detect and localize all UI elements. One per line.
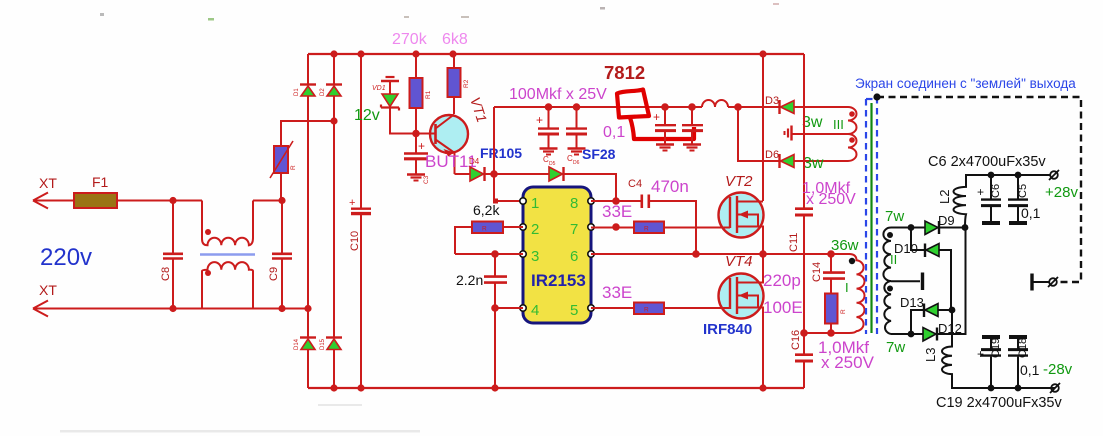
node base junction <box>412 130 420 138</box>
wire to D6 <box>738 107 779 161</box>
thermistor/varistor branch wire <box>281 121 334 201</box>
wire AC line bottom with arrow <box>33 301 308 317</box>
wire D1/D14 leg <box>307 54 309 388</box>
svg-text:100E: 100E <box>763 298 803 317</box>
svg-text:6,2k: 6,2k <box>473 202 500 218</box>
svg-text:VD1: VD1 <box>372 85 386 92</box>
svg-text:VT2: VT2 <box>725 173 753 190</box>
svg-text:C11: C11 <box>788 233 800 252</box>
pin circles <box>520 198 594 311</box>
capacitor C9 <box>272 201 292 309</box>
svg-text:C3: C3 <box>423 175 430 184</box>
wire AC line top with arrow <box>33 193 282 209</box>
transistor VT1 (BUT11) <box>416 115 468 175</box>
node pin3 junction <box>491 250 499 258</box>
diode D6 <box>765 149 848 168</box>
diode D1 <box>294 85 316 97</box>
thermistor R (crossed rectangle) <box>274 146 288 173</box>
svg-text:0,1: 0,1 <box>1020 362 1040 378</box>
diode D9 <box>925 213 965 235</box>
diode D15 <box>320 338 342 351</box>
diode FR105 <box>455 167 495 181</box>
svg-text:3w: 3w <box>803 155 824 172</box>
svg-text:5: 5 <box>570 302 578 319</box>
noise specks <box>60 3 779 433</box>
svg-text:D3: D3 <box>765 95 779 107</box>
terminal +28v <box>1049 170 1059 180</box>
svg-text:IR2153: IR2153 <box>531 271 586 290</box>
resistor R1 <box>410 54 433 134</box>
wire black dashed (screen to output common) <box>877 97 1081 282</box>
svg-text:2: 2 <box>531 221 539 238</box>
svg-text:+: + <box>418 139 425 153</box>
wire D2/D15 leg <box>333 54 335 388</box>
svg-text:C8: C8 <box>160 267 172 281</box>
MOSFET VT2 <box>719 54 764 254</box>
diode D10 <box>894 228 951 311</box>
svg-text:Экран соединен с "землей" выхо: Экран соединен с "землей" выхода <box>855 76 1076 91</box>
inductor L2 <box>954 175 992 228</box>
svg-text:+: + <box>536 113 543 127</box>
svg-text:SF28: SF28 <box>582 146 616 162</box>
svg-text:XT: XT <box>39 282 57 298</box>
svg-text:3: 3 <box>531 248 539 265</box>
IC IR2153 <box>523 187 591 323</box>
svg-text:1: 1 <box>531 195 539 212</box>
svg-text:12v: 12v <box>354 107 380 124</box>
wire pin4 <box>495 307 523 309</box>
svg-text:33E: 33E <box>602 202 632 221</box>
svg-text:C9: C9 <box>268 267 280 281</box>
node: junctions on AC lines <box>169 197 176 204</box>
svg-text:F1: F1 <box>92 174 109 190</box>
svg-text:C19 2x4700uFx35v: C19 2x4700uFx35v <box>936 395 1062 411</box>
svg-text:C19: C19 <box>990 338 1002 358</box>
wire secondary top <box>891 227 925 229</box>
svg-text:I: I <box>845 280 849 295</box>
regulator 7812 (hand-drawn overlay) <box>617 90 694 140</box>
svg-text:R2: R2 <box>463 79 470 88</box>
svg-text:C5: C5 <box>1017 184 1029 198</box>
svg-text:D10: D10 <box>894 241 918 256</box>
choke polarity dot top <box>205 229 211 235</box>
diode D13 <box>900 295 952 334</box>
svg-text:7w: 7w <box>886 339 905 356</box>
svg-text:220p: 220p <box>763 271 801 290</box>
svg-text:R: R <box>290 165 297 170</box>
svg-text:D14: D14 <box>294 338 300 350</box>
MOSFET VT4 <box>719 254 764 388</box>
ground (winding III tap, rotated) <box>785 126 792 141</box>
capacitor C11 (divider top) <box>795 54 813 333</box>
svg-text:3w: 3w <box>802 114 823 131</box>
diode bootstrap (SF28) <box>494 167 616 201</box>
svg-text:x 250V: x 250V <box>821 353 875 372</box>
capacitor C18 <box>1008 337 1028 388</box>
screen (blue dashed + green core) <box>866 97 877 334</box>
svg-text:100Mkf x 25V: 100Mkf x 25V <box>509 86 607 103</box>
svg-text:-28v: -28v <box>1043 361 1073 378</box>
node dots top rail <box>330 50 337 57</box>
terminal -28v <box>1050 383 1060 393</box>
wire bottom rail 0V <box>308 387 804 389</box>
wire pin5 to gate resistor <box>591 307 634 309</box>
svg-text:+: + <box>977 347 984 361</box>
capacitor C3 <box>404 134 430 185</box>
capacitor 0.1 B <box>682 107 703 151</box>
svg-text:R: R <box>644 307 649 314</box>
svg-text:+: + <box>977 185 984 199</box>
svg-text:+: + <box>349 197 355 209</box>
capacitor C5 (100Mkf) <box>536 107 559 167</box>
node <box>545 103 553 111</box>
node pin8 junction <box>612 197 620 205</box>
svg-text:D4: D4 <box>469 157 480 166</box>
svg-text:R: R <box>644 226 649 233</box>
primary polarity dot <box>849 258 855 264</box>
svg-text:0,1: 0,1 <box>603 124 625 141</box>
inductor (12V filter) <box>702 100 728 107</box>
svg-text:D6: D6 <box>573 160 580 166</box>
svg-text:7812: 7812 <box>604 62 645 83</box>
svg-text:+: + <box>653 110 660 124</box>
wire secondary bottom <box>891 333 923 335</box>
common-mode choke lower winding <box>202 262 253 308</box>
zener VD1 with inverted ground <box>372 77 416 134</box>
diode D3 <box>765 95 848 114</box>
svg-text:470n: 470n <box>651 177 689 196</box>
ground secondary centre tap <box>891 280 920 282</box>
secondary polarity dots <box>887 232 893 238</box>
svg-text:7w: 7w <box>885 208 904 225</box>
wire -28V output <box>988 385 995 392</box>
svg-text:R1: R1 <box>425 90 432 99</box>
resistor 33E (low side) <box>634 303 664 315</box>
svg-text:D9: D9 <box>938 213 955 228</box>
svg-text:C10: C10 <box>349 231 361 251</box>
node divider midpoint <box>800 329 808 337</box>
capacitor C5 <box>1008 175 1028 223</box>
svg-text:D12: D12 <box>938 321 962 336</box>
svg-text:0,1: 0,1 <box>1021 205 1041 221</box>
choke polarity dot bottom <box>205 270 211 276</box>
capacitor C6 <box>981 175 1001 223</box>
capacitor CT 2.2n <box>484 254 507 388</box>
svg-text:4: 4 <box>531 302 539 319</box>
svg-text:D5: D5 <box>549 161 556 167</box>
svg-text:R: R <box>840 309 847 314</box>
svg-text:33E: 33E <box>602 283 632 302</box>
wire top rail +310V <box>308 53 804 55</box>
svg-text:L3: L3 <box>923 348 938 362</box>
svg-text:III: III <box>833 117 844 132</box>
svg-text:6k8: 6k8 <box>442 31 468 48</box>
svg-text:D6: D6 <box>765 149 779 161</box>
wire primary bottom <box>804 332 849 334</box>
resistor snubber 100E <box>825 294 838 324</box>
svg-text:C14: C14 <box>811 262 823 282</box>
resistor RT 6,2k <box>455 222 523 255</box>
svg-text:+28v: +28v <box>1045 184 1078 201</box>
diode D12 <box>923 228 966 342</box>
terminal common (0V) <box>1032 274 1058 291</box>
svg-text:L2: L2 <box>937 190 952 204</box>
svg-text:C16: C16 <box>790 330 802 350</box>
wire pin7 to gate resistor <box>591 227 634 229</box>
svg-text:XT: XT <box>39 175 57 191</box>
wire +28V output <box>966 174 1050 176</box>
node <box>573 103 581 111</box>
capacitor C16 (divider bottom) <box>795 333 813 388</box>
winding III polarity dots <box>849 111 855 117</box>
svg-text:D13: D13 <box>900 295 924 310</box>
svg-text:220v: 220v <box>40 244 92 271</box>
fuse F1 <box>74 193 117 208</box>
svg-text:2.2n: 2.2n <box>456 272 483 288</box>
svg-text:x 250V: x 250V <box>806 191 856 208</box>
svg-text:R: R <box>482 226 487 233</box>
svg-text:D1: D1 <box>294 88 300 96</box>
svg-text:7: 7 <box>570 221 578 238</box>
svg-text:36w: 36w <box>831 237 859 254</box>
svg-text:FR105: FR105 <box>480 145 522 161</box>
capacitor C7 (100Mkf) <box>566 107 587 166</box>
svg-text:C18: C18 <box>1017 338 1029 358</box>
svg-text:C6: C6 <box>990 184 1002 198</box>
resistor 33E (high side) <box>634 222 664 234</box>
wire Vcc to 12V rail and to pin1 <box>494 107 523 201</box>
node pin4 junction <box>491 304 499 312</box>
node screen dot <box>873 93 880 100</box>
capacitor C4 470n (bootstrap) <box>591 195 696 255</box>
capacitor C8 <box>163 201 183 309</box>
diode D2 <box>320 85 342 97</box>
capacitor 0.1 A <box>653 107 676 151</box>
node Vcc junction <box>490 170 498 178</box>
winding III (3w+3w) <box>793 107 857 161</box>
capacitor C14 (snubber 220p) <box>823 254 845 294</box>
svg-text:C4: C4 <box>628 178 642 190</box>
svg-text:IRF840: IRF840 <box>703 321 752 338</box>
common-mode choke upper winding <box>202 201 253 246</box>
svg-text:270k: 270k <box>392 31 428 48</box>
resistor R2 <box>448 54 471 114</box>
choke core (blue line) <box>200 253 255 256</box>
svg-text:VT4: VT4 <box>725 253 753 270</box>
svg-text:8: 8 <box>570 195 578 212</box>
inductor L3 <box>942 310 1055 388</box>
diode D14 <box>294 338 316 351</box>
capacitor C19 <box>981 337 1001 388</box>
svg-text:C6 2x4700uFx35v: C6 2x4700uFx35v <box>928 154 1046 170</box>
winding I primary 36w <box>849 254 865 333</box>
svg-text:D15: D15 <box>320 338 326 350</box>
svg-text:6: 6 <box>570 248 578 265</box>
capacitor C10 (bus filter) <box>351 54 371 388</box>
node dots bottom rail <box>330 384 337 391</box>
node aux junction <box>734 103 742 111</box>
wire 12V rail <box>494 106 779 108</box>
svg-text:D2: D2 <box>320 88 326 96</box>
winding II secondary (7w+7w) <box>883 228 891 335</box>
wire mid rail (pin6 / half-bridge midpoint) <box>591 253 850 255</box>
